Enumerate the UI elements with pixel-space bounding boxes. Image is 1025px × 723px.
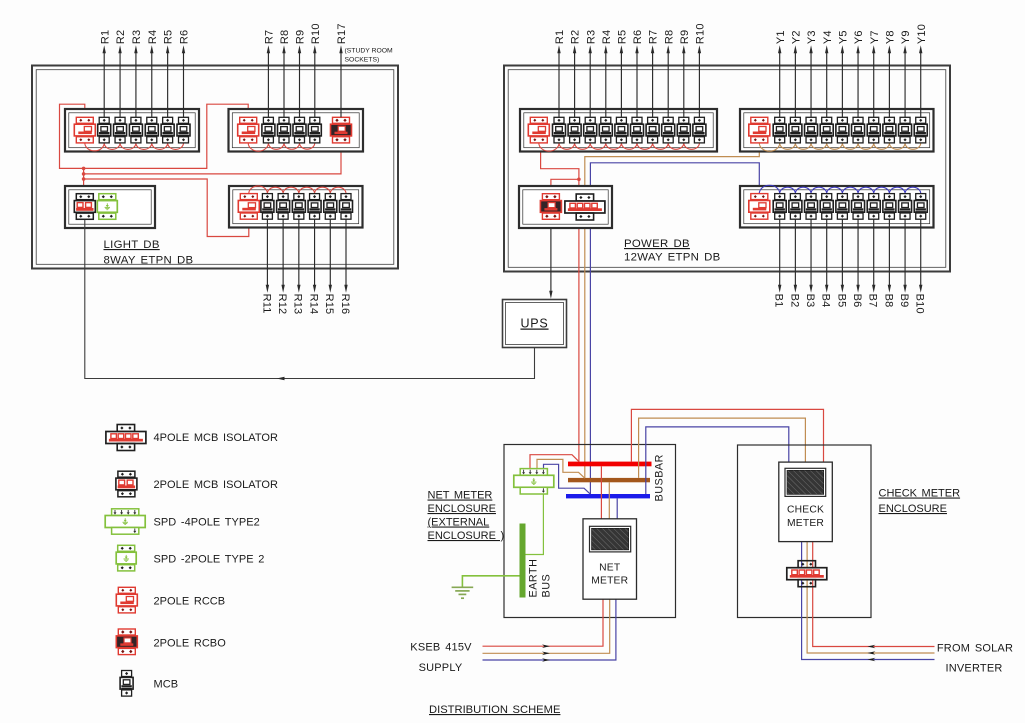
feeder label Y6 bbox=[853, 30, 865, 117]
breaker R14 bbox=[308, 194, 321, 220]
svg-text:8WAY ETPN DB: 8WAY ETPN DB bbox=[104, 255, 194, 267]
wire red phase POWER DB bbox=[541, 143, 579, 462]
2-pole MCB isolator legend bbox=[116, 471, 137, 497]
svg-text:2POLE RCCB: 2POLE RCCB bbox=[154, 596, 226, 608]
svg-text:R10: R10 bbox=[695, 23, 707, 44]
wire RCBO to UPS bbox=[550, 220, 552, 292]
wire arcs bbox=[249, 186, 346, 194]
RCCB POWER DB R bbox=[528, 117, 549, 143]
breaker power R10 bbox=[693, 117, 706, 143]
wire arcs bbox=[539, 143, 700, 151]
svg-text:R12: R12 bbox=[276, 294, 288, 315]
breaker R9 bbox=[293, 117, 306, 143]
breaker R6 bbox=[177, 117, 190, 143]
feeder label R7 bbox=[264, 30, 276, 118]
4-pole MCB isolator legend bbox=[106, 425, 146, 451]
svg-text:CHECK METER: CHECK METER bbox=[879, 488, 961, 500]
svg-text:R2: R2 bbox=[570, 30, 582, 44]
wire green SPD to earth bus bbox=[526, 494, 544, 555]
wire red feed LIGHT DB bbox=[60, 104, 249, 168]
svg-text:B6: B6 bbox=[851, 294, 863, 308]
svg-text:R5: R5 bbox=[617, 30, 629, 44]
wire red to bottom-right RCCB bbox=[84, 179, 249, 237]
feeder label R14 bbox=[307, 219, 319, 314]
svg-text:B3: B3 bbox=[804, 294, 816, 308]
breaker R11 bbox=[261, 194, 274, 220]
feeder label R9 bbox=[295, 30, 307, 118]
wire isolator to UPS bbox=[85, 220, 535, 379]
feeder label R15 bbox=[323, 219, 335, 314]
svg-text:BUS: BUS bbox=[541, 574, 553, 598]
wire green earth bus to ground bbox=[462, 576, 519, 588]
svg-text:NET: NET bbox=[599, 563, 621, 574]
breaker Y10 bbox=[914, 117, 927, 143]
svg-text:R8: R8 bbox=[663, 30, 675, 44]
svg-text:MCB: MCB bbox=[154, 679, 179, 691]
earth bus bar bbox=[520, 524, 526, 598]
wire blue phase POWER DB bbox=[590, 163, 759, 494]
svg-text:Y8: Y8 bbox=[884, 30, 896, 44]
NET METER bbox=[583, 519, 637, 599]
feeder label Y2 bbox=[790, 30, 802, 117]
feeder label R1 bbox=[99, 30, 111, 118]
svg-text:ENCLOSURE: ENCLOSURE bbox=[879, 503, 947, 515]
breaker B3 bbox=[805, 194, 818, 220]
svg-text:2POLE RCBO: 2POLE RCBO bbox=[154, 638, 227, 650]
feeder label B2 bbox=[788, 219, 800, 307]
svg-text:Y1: Y1 bbox=[775, 30, 787, 44]
wire red check meter to solar bbox=[813, 542, 935, 647]
busbar red bbox=[568, 462, 652, 467]
svg-text:ENCLOSURE: ENCLOSURE bbox=[428, 503, 496, 515]
breaker R1 bbox=[98, 117, 111, 143]
feeder label R3 bbox=[131, 30, 143, 118]
svg-text:R11: R11 bbox=[260, 294, 272, 314]
breaker legend bbox=[120, 671, 133, 697]
arrowhead toward LIGHT DB bbox=[277, 377, 285, 380]
svg-text:R3: R3 bbox=[131, 30, 143, 44]
wire blue to check meter bbox=[646, 427, 789, 494]
wire blue SPD to busbar bbox=[544, 464, 591, 494]
feeder label R10 bbox=[310, 23, 322, 117]
breaker power R4 bbox=[599, 117, 612, 143]
SPD 4-pole net meter enclosure bbox=[514, 469, 554, 494]
feeder label R8 bbox=[663, 30, 675, 118]
SPD 4-pole legend bbox=[105, 509, 145, 534]
busbar blue bbox=[566, 494, 650, 498]
breaker Y4 bbox=[820, 117, 833, 143]
panel POWER DB row1-right bbox=[740, 109, 934, 152]
feeder label R9 bbox=[679, 30, 691, 118]
wire red branch to RCBO bbox=[551, 179, 579, 193]
RCCB LIGHT DB row2 bbox=[238, 194, 259, 220]
breaker power R6 bbox=[631, 117, 644, 143]
breaker R16 bbox=[340, 194, 353, 220]
feeder label B7 bbox=[867, 219, 879, 307]
feeder label R2 bbox=[570, 30, 582, 118]
supply arrowheads bbox=[542, 644, 550, 648]
breaker B1 bbox=[773, 194, 786, 220]
RCCB legend bbox=[116, 587, 137, 613]
panel LIGHT DB row1-left bbox=[65, 109, 199, 152]
feeder label B9 bbox=[898, 219, 910, 307]
breaker R10 bbox=[308, 117, 321, 143]
breaker R8 bbox=[278, 117, 291, 143]
breaker Y8 bbox=[883, 117, 896, 143]
svg-text:UPS: UPS bbox=[520, 317, 548, 331]
svg-text:R3: R3 bbox=[585, 30, 597, 44]
svg-text:SPD -4POLE TYPE2: SPD -4POLE TYPE2 bbox=[154, 517, 260, 529]
feeder label Y1 bbox=[775, 30, 787, 117]
svg-text:R9: R9 bbox=[679, 30, 691, 44]
svg-text:R1: R1 bbox=[554, 30, 566, 44]
2-pole MCB isolator LIGHT DB incomer bbox=[74, 194, 95, 220]
svg-text:R15: R15 bbox=[323, 294, 335, 315]
feeder label R5 bbox=[163, 30, 175, 118]
svg-text:(EXTERNAL: (EXTERNAL bbox=[428, 517, 490, 529]
wire red SPD to busbar bbox=[530, 455, 579, 469]
wire brown KSEB supply bbox=[483, 599, 610, 653]
SPD 2-pole LIGHT DB bbox=[97, 194, 117, 220]
svg-text:Y10: Y10 bbox=[916, 24, 928, 44]
breaker power R3 bbox=[584, 117, 597, 143]
wire blue check meter to solar bbox=[802, 542, 935, 660]
breaker R15 bbox=[324, 194, 337, 220]
svg-text:Y3: Y3 bbox=[806, 30, 818, 44]
feeder label Y3 bbox=[806, 30, 818, 117]
breaker Y6 bbox=[852, 117, 865, 143]
svg-text:KSEB 415V: KSEB 415V bbox=[410, 642, 472, 654]
breaker Y2 bbox=[789, 117, 802, 143]
svg-text:12WAY ETPN DB: 12WAY ETPN DB bbox=[624, 252, 721, 264]
RCCB POWER DB B bbox=[749, 194, 770, 220]
breaker B8 bbox=[883, 194, 896, 220]
RCBO R17 bbox=[331, 117, 352, 143]
svg-text:B4: B4 bbox=[820, 294, 832, 308]
panel POWER DB row1-left bbox=[520, 109, 717, 152]
breaker Y1 bbox=[773, 117, 786, 143]
feeder label B10 bbox=[914, 219, 926, 314]
svg-text:Y6: Y6 bbox=[853, 30, 865, 44]
svg-text:B7: B7 bbox=[867, 294, 879, 308]
svg-text:(STUDY ROOM: (STUDY ROOM bbox=[345, 48, 394, 55]
svg-text:R16: R16 bbox=[339, 294, 351, 315]
breaker power R7 bbox=[646, 117, 659, 143]
feeder label R2 bbox=[115, 30, 127, 118]
feeder label R12 bbox=[276, 219, 288, 314]
wire brown busbar to net meter bbox=[608, 482, 610, 519]
breaker R12 bbox=[277, 194, 290, 220]
enclosure box POWER DB bbox=[504, 66, 950, 272]
wire arcs bbox=[759, 143, 920, 151]
4-pole MCB isolator check meter bbox=[787, 561, 827, 587]
breaker Y3 bbox=[805, 117, 818, 143]
svg-text:R2: R2 bbox=[115, 30, 127, 44]
wire red to RCBO R17 bbox=[84, 143, 341, 174]
breaker Y9 bbox=[899, 117, 912, 143]
wire red KSEB supply bbox=[483, 599, 604, 646]
wire blue KSEB supply bbox=[483, 599, 616, 660]
svg-text:B8: B8 bbox=[882, 294, 894, 308]
svg-text:R14: R14 bbox=[307, 294, 319, 315]
4-pole MCB isolator POWER DB incomer bbox=[565, 194, 605, 220]
svg-text:NET METER: NET METER bbox=[428, 490, 493, 502]
svg-text:R6: R6 bbox=[179, 30, 191, 44]
solar arrowheads bbox=[867, 645, 875, 649]
UPS box bbox=[503, 300, 567, 348]
svg-text:R1: R1 bbox=[99, 30, 111, 44]
RCBO legend bbox=[116, 629, 137, 655]
svg-text:R8: R8 bbox=[279, 30, 291, 44]
svg-text:B5: B5 bbox=[835, 294, 847, 308]
svg-text:B1: B1 bbox=[773, 294, 785, 308]
wire arcs bbox=[759, 185, 920, 193]
breaker R7 bbox=[262, 117, 275, 143]
breaker B9 bbox=[899, 194, 912, 220]
wire brown check meter to solar bbox=[807, 542, 934, 653]
feeder label Y10 bbox=[916, 24, 928, 117]
wire arcs bbox=[248, 143, 315, 151]
breaker B6 bbox=[852, 194, 865, 220]
breaker power R5 bbox=[615, 117, 628, 143]
svg-text:R13: R13 bbox=[292, 294, 304, 315]
svg-text:CHECK: CHECK bbox=[787, 505, 824, 516]
feeder label R8 bbox=[279, 30, 291, 118]
svg-text:BUSBAR: BUSBAR bbox=[654, 454, 666, 501]
busbar brown bbox=[568, 478, 650, 482]
breaker B4 bbox=[820, 194, 833, 220]
svg-text:R4: R4 bbox=[601, 30, 613, 44]
svg-text:B9: B9 bbox=[898, 294, 910, 308]
RCBO POWER DB UPS bbox=[540, 194, 561, 220]
feeder label Y4 bbox=[822, 30, 834, 117]
breaker B10 bbox=[914, 194, 927, 220]
breaker B5 bbox=[836, 194, 849, 220]
feeder label R10 bbox=[695, 23, 707, 117]
RCCB LIGHT DB main bbox=[74, 117, 95, 143]
wire blue busbar to net meter bbox=[616, 498, 618, 518]
svg-text:4POLE MCB ISOLATOR: 4POLE MCB ISOLATOR bbox=[154, 432, 279, 444]
svg-text:R4: R4 bbox=[147, 30, 159, 44]
svg-text:EARTH: EARTH bbox=[528, 559, 540, 598]
svg-text:METER: METER bbox=[787, 518, 824, 529]
RCCB POWER DB Y bbox=[749, 117, 770, 143]
enclosure box LIGHT DB bbox=[32, 66, 398, 269]
svg-text:R7: R7 bbox=[648, 30, 660, 44]
breaker power R2 bbox=[568, 117, 581, 143]
ground symbol bbox=[452, 587, 474, 598]
feeder label R6 bbox=[632, 30, 644, 118]
panel LIGHT DB row2-right bbox=[229, 186, 363, 228]
feeder label R13 bbox=[292, 219, 304, 314]
SPD 2-pole legend bbox=[116, 545, 136, 571]
feeder label R1 bbox=[554, 30, 566, 118]
svg-text:Y9: Y9 bbox=[900, 30, 912, 44]
svg-text:R6: R6 bbox=[632, 30, 644, 44]
svg-text:FROM SOLAR: FROM SOLAR bbox=[937, 643, 1013, 655]
feeder label Y5 bbox=[837, 30, 849, 117]
panel LIGHT DB row1-right bbox=[229, 109, 364, 152]
svg-text:Y4: Y4 bbox=[822, 30, 834, 44]
svg-text:INVERTER: INVERTER bbox=[945, 663, 1002, 675]
feeder label Y7 bbox=[869, 30, 881, 117]
feeder label R6 bbox=[179, 30, 191, 118]
breaker B7 bbox=[867, 194, 880, 220]
wire red busbar to net meter bbox=[600, 466, 602, 519]
breaker Y7 bbox=[867, 117, 880, 143]
feeder label B6 bbox=[851, 219, 863, 307]
svg-text:R5: R5 bbox=[163, 30, 175, 44]
CHECK METER enclosure bbox=[738, 445, 872, 618]
feeder label B4 bbox=[820, 219, 832, 307]
wire brown phase POWER DB bbox=[585, 143, 760, 478]
feeder label B1 bbox=[773, 219, 785, 307]
svg-text:ENCLOSURE ): ENCLOSURE ) bbox=[428, 530, 505, 542]
breaker B2 bbox=[789, 194, 802, 220]
svg-text:LIGHT DB: LIGHT DB bbox=[104, 239, 160, 251]
feeder label R3 bbox=[585, 30, 597, 118]
breaker power R1 bbox=[553, 117, 566, 143]
feeder label R11 bbox=[260, 219, 272, 313]
wire brown SPD to busbar bbox=[537, 459, 585, 478]
breaker R13 bbox=[292, 194, 305, 220]
feeder label R5 bbox=[617, 30, 629, 118]
breaker Y5 bbox=[836, 117, 849, 143]
RCCB LIGHT DB aux bbox=[238, 117, 259, 143]
svg-text:R17: R17 bbox=[336, 23, 348, 44]
svg-text:R7: R7 bbox=[264, 30, 276, 44]
svg-text:SUPPLY: SUPPLY bbox=[419, 662, 463, 674]
svg-text:Y2: Y2 bbox=[790, 30, 802, 44]
junction dots bbox=[82, 167, 86, 171]
feeder label R7 bbox=[648, 30, 660, 118]
svg-text:2POLE MCB ISOLATOR: 2POLE MCB ISOLATOR bbox=[154, 479, 279, 491]
wire brown to check meter bbox=[639, 418, 806, 478]
svg-text:B10: B10 bbox=[914, 294, 926, 314]
panel POWER DB row2-right bbox=[740, 186, 934, 228]
wire arcs bbox=[85, 143, 184, 151]
svg-text:R9: R9 bbox=[295, 30, 307, 44]
breaker R2 bbox=[114, 117, 127, 143]
feeder label R4 bbox=[147, 30, 159, 118]
svg-text:SOCKETS): SOCKETS) bbox=[345, 57, 380, 64]
panel POWER DB incomer bbox=[519, 186, 612, 228]
svg-text:B2: B2 bbox=[788, 294, 800, 308]
svg-text:DISTRIBUTION SCHEME: DISTRIBUTION SCHEME bbox=[429, 704, 560, 716]
wire red to check meter bbox=[631, 409, 823, 462]
feeder label R17 bbox=[336, 23, 393, 117]
feeder label B3 bbox=[804, 219, 816, 307]
breaker power R8 bbox=[662, 117, 675, 143]
feeder label R4 bbox=[601, 30, 613, 118]
feeder label B8 bbox=[882, 219, 894, 307]
wire red tap to isolator bbox=[83, 168, 85, 197]
CHECK METER bbox=[779, 462, 833, 541]
svg-text:R10: R10 bbox=[310, 23, 322, 44]
svg-text:Y7: Y7 bbox=[869, 30, 881, 44]
feeder label Y8 bbox=[884, 30, 896, 117]
feeder label R16 bbox=[339, 219, 351, 314]
breaker R4 bbox=[145, 117, 158, 143]
feeder label Y9 bbox=[900, 30, 912, 117]
svg-text:METER: METER bbox=[591, 576, 628, 587]
panel LIGHT DB row2-left bbox=[65, 186, 155, 228]
svg-text:POWER DB: POWER DB bbox=[624, 238, 690, 250]
svg-text:SPD -2POLE TYPE 2: SPD -2POLE TYPE 2 bbox=[154, 554, 265, 566]
breaker R3 bbox=[129, 117, 142, 143]
feeder label B5 bbox=[835, 219, 847, 307]
svg-text:Y5: Y5 bbox=[837, 30, 849, 44]
breaker power R9 bbox=[677, 117, 690, 143]
NET METER enclosure bbox=[504, 445, 676, 618]
breaker R5 bbox=[161, 117, 174, 143]
